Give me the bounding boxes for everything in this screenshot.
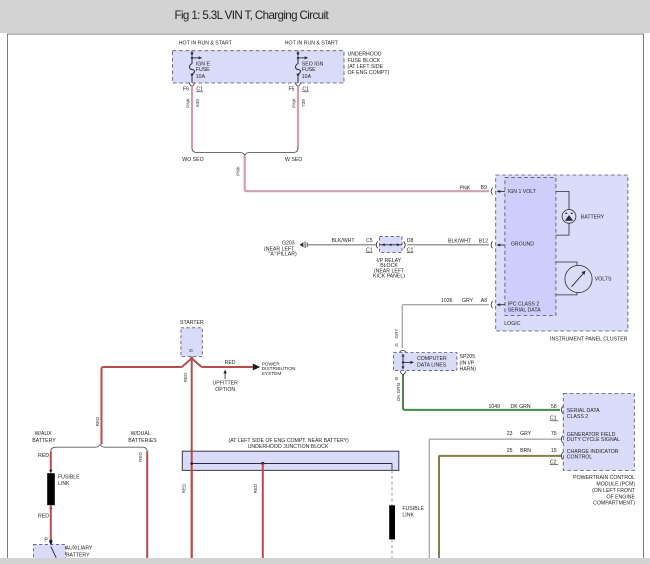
connector pin F6 / C1 — [183, 83, 203, 93]
fuse IGN E FUSE 10A — [190, 51, 211, 83]
starter motor B terminal — [180, 320, 204, 356]
svg-text:RED: RED — [38, 514, 49, 520]
ground G203 — [264, 240, 307, 257]
svg-text:COMPUTER: COMPUTER — [417, 356, 447, 362]
svg-text:58: 58 — [551, 404, 557, 410]
svg-text:739: 739 — [301, 99, 306, 107]
gauge VOLTS — [556, 262, 612, 295]
svg-text:639: 639 — [195, 99, 200, 107]
svg-text:BRN: BRN — [520, 448, 531, 454]
splice SP205 computer data lines — [394, 353, 477, 373]
svg-text:23: 23 — [507, 431, 513, 437]
svg-text:FUSIBLE: FUSIBLE — [58, 475, 80, 481]
svg-text:W/AUX: W/AUX — [35, 431, 53, 437]
junction at starter B — [190, 357, 193, 360]
wire (dashed, below fusible link 2) — [391, 539, 393, 558]
connector at PCM pin 75 — [561, 436, 563, 443]
svg-text:C5: C5 — [366, 238, 373, 244]
svg-text:PNK: PNK — [291, 97, 296, 107]
wire RED (starter wire through junction block) — [191, 451, 193, 558]
svg-text:OF ENG COMPT): OF ENG COMPT) — [348, 70, 390, 76]
wire GRY 23 (PCM 75 down) — [429, 439, 561, 558]
svg-text:LINK: LINK — [58, 481, 70, 487]
wire PNK 739 (fuse F5 down) — [297, 86, 299, 148]
svg-text:UNDERHOOD: UNDERHOOD — [348, 52, 382, 58]
module PCM powertrain control module — [563, 394, 636, 507]
svg-text:AUXILIARY: AUXILIARY — [66, 545, 94, 551]
wire BLK/WHT (relay block to IPC B12) — [408, 244, 490, 246]
svg-text:VOLTS: VOLTS — [595, 276, 612, 282]
svg-text:F5: F5 — [289, 87, 295, 93]
svg-text:1036: 1036 — [441, 298, 453, 304]
connector at A8 — [491, 301, 493, 308]
wire (dashed, junction block to fusible link 2) — [391, 470, 393, 505]
wire BLK/WHT (G203 to I/P relay block) — [308, 244, 376, 246]
svg-text:HOT IN RUN & START: HOT IN RUN & START — [179, 41, 233, 47]
svg-text:BLK/WHT: BLK/WHT — [448, 238, 472, 244]
fusible link 2 — [389, 505, 424, 539]
svg-text:"A" PILLAR): "A" PILLAR) — [269, 252, 297, 258]
svg-text:FUSE BLOCK: FUSE BLOCK — [348, 58, 381, 64]
wire RED (starter splice left diagonal) — [182, 358, 192, 367]
svg-text:RED: RED — [38, 453, 49, 459]
svg-text:GRY: GRY — [462, 298, 474, 304]
svg-text:INSTRUMENT PANEL CLUSTER: INSTRUMENT PANEL CLUSTER — [550, 336, 628, 342]
connector D8 — [404, 241, 406, 248]
svg-text:1049: 1049 — [489, 404, 501, 410]
svg-text:10A: 10A — [196, 74, 206, 80]
svg-text:B9: B9 — [481, 185, 487, 191]
connector C5 — [376, 241, 378, 248]
bottom bar — [0, 558, 650, 564]
underhood fuse block — [173, 51, 390, 83]
wire RED (junction block tap down) — [262, 464, 264, 559]
svg-text:UPFITTER: UPFITTER — [213, 381, 239, 387]
splice brace W/AUX / W/DUAL batteries — [32, 431, 157, 452]
title bar — [0, 0, 650, 33]
wire RED (left branch to battery brace) — [102, 367, 182, 444]
junction at relay pin P — [49, 540, 52, 543]
svg-text:F6: F6 — [183, 87, 189, 93]
svg-text:OF ENGINE: OF ENGINE — [606, 494, 635, 500]
svg-text:LINK: LINK — [402, 512, 414, 518]
svg-text:STARTER: STARTER — [180, 320, 204, 326]
svg-text:BATTERY: BATTERY — [32, 438, 56, 444]
svg-text:BATTERIES: BATTERIES — [128, 438, 157, 444]
wire RED (starter splice right diagonal) — [192, 358, 202, 367]
svg-text:RED: RED — [138, 451, 143, 461]
svg-text:UNDERHOOD JUNCTION BLOCK: UNDERHOOD JUNCTION BLOCK — [248, 444, 329, 450]
svg-text:SERIAL DATA: SERIAL DATA — [567, 408, 600, 414]
svg-text:RED: RED — [182, 483, 187, 493]
svg-text:25: 25 — [507, 448, 513, 454]
wire RED (starter down to junction block) — [191, 357, 193, 559]
svg-text:GRY: GRY — [394, 329, 399, 339]
node UPFITTER OPTION — [213, 370, 239, 393]
wire RED (W/DUAL batteries branch) — [146, 451, 148, 558]
svg-text:FUSE: FUSE — [302, 67, 316, 73]
wire PNK (splice to IPC B9) — [236, 156, 489, 192]
svg-text:D8: D8 — [407, 238, 414, 244]
svg-text:15: 15 — [551, 448, 557, 454]
svg-text:BATTERY: BATTERY — [66, 553, 90, 559]
junction on bus bar — [261, 462, 264, 465]
svg-text:HARN): HARN) — [460, 367, 477, 373]
svg-text:SYSTEM: SYSTEM — [262, 371, 282, 377]
svg-text:W SEO: W SEO — [285, 157, 302, 163]
svg-text:POWERTRAIN CONTROL: POWERTRAIN CONTROL — [573, 475, 635, 481]
wire RED (fusible link to relay) — [50, 505, 52, 544]
svg-text:A8: A8 — [481, 298, 487, 304]
connector at B12 — [491, 241, 493, 248]
svg-text:DK GRN: DK GRN — [511, 404, 531, 410]
svg-text:IGN 1 VOLT: IGN 1 VOLT — [508, 189, 537, 195]
svg-text:B: B — [394, 377, 399, 380]
wire DK GRN 1049 (SP205 to PCM 58) — [403, 375, 560, 410]
junction block I/P relay block — [373, 237, 405, 280]
svg-text:GRY: GRY — [520, 431, 532, 437]
svg-text:CLASS 2: CLASS 2 — [567, 414, 588, 420]
svg-text:FUSE: FUSE — [196, 67, 210, 73]
svg-text:RED: RED — [95, 416, 100, 426]
connector at PCM pin 58 — [561, 406, 563, 413]
svg-text:RED: RED — [183, 372, 188, 382]
svg-text:GROUND: GROUND — [511, 241, 534, 247]
svg-text:10A: 10A — [302, 74, 312, 80]
svg-text:SERIAL DATA: SERIAL DATA — [508, 308, 541, 314]
wire BRN 25 (PCM 15 down) — [439, 456, 561, 558]
svg-text:PNK: PNK — [185, 97, 190, 107]
svg-text:Fig 1: 5.3L VIN T, Charging Ci: Fig 1: 5.3L VIN T, Charging Circuit — [175, 9, 330, 22]
svg-text:DK GRN: DK GRN — [396, 383, 401, 401]
wire GRY 1036 (IPC A8 to SP205) — [402, 305, 489, 349]
svg-text:DUTY CYCLE SIGNAL: DUTY CYCLE SIGNAL — [567, 437, 620, 443]
svg-text:OPTION: OPTION — [215, 387, 235, 393]
svg-text:(ON LEFT FRONT: (ON LEFT FRONT — [592, 488, 636, 494]
svg-text:BATTERY: BATTERY — [581, 214, 605, 220]
module IPC logic box (inner) — [504, 178, 556, 327]
svg-text:BLK/WHT: BLK/WHT — [332, 238, 356, 244]
junction block underhood junction block — [182, 438, 398, 470]
relay auxiliary battery relay — [34, 541, 94, 563]
svg-text:W/DUAL: W/DUAL — [131, 431, 151, 437]
fusible link 1 — [47, 470, 80, 509]
svg-text:RED: RED — [253, 483, 258, 493]
connector at B9 — [491, 188, 493, 195]
wire PNK 639 (fuse F6 down) — [191, 86, 193, 148]
indicator lamp BATTERY — [556, 191, 605, 235]
wire RED (right branch to power distribution) — [202, 366, 253, 368]
svg-text:RED: RED — [225, 360, 236, 366]
svg-text:PNK: PNK — [236, 165, 241, 175]
svg-text:(IN I/P: (IN I/P — [460, 360, 475, 366]
junction at bus left end — [190, 462, 193, 465]
connector pin F5 / C1 — [289, 83, 310, 93]
connector G (above splice box) — [400, 350, 406, 352]
svg-text:CONTROL: CONTROL — [567, 455, 592, 461]
svg-text:75: 75 — [551, 431, 557, 437]
svg-text:WO SEO: WO SEO — [182, 157, 203, 163]
svg-text:B: B — [188, 349, 193, 352]
svg-text:IPC CLASS 2: IPC CLASS 2 — [508, 301, 540, 307]
svg-text:LOGIC: LOGIC — [504, 321, 520, 327]
splice brace WO SEO / W SEO — [182, 148, 302, 163]
wire RED (W/AUX battery branch) — [50, 451, 52, 471]
svg-text:P: P — [44, 537, 48, 543]
svg-text:G: G — [394, 343, 399, 347]
svg-text:MODULE (PCM): MODULE (PCM) — [596, 481, 635, 487]
node POWER DISTRIBUTION SYSTEM — [253, 361, 296, 377]
svg-text:HOT IN RUN & START: HOT IN RUN & START — [285, 41, 339, 47]
svg-text:PNK: PNK — [460, 185, 471, 191]
svg-text:SP205: SP205 — [460, 354, 476, 360]
module U-IPC instrument panel cluster (outer) — [496, 175, 628, 342]
svg-text:B12: B12 — [479, 238, 488, 244]
connector at PCM pin 15 — [561, 452, 563, 459]
connector B (below splice box) — [400, 371, 406, 375]
svg-text:DATA LINES: DATA LINES — [417, 362, 447, 368]
fuse SEO IGN FUSE 10A — [296, 51, 324, 83]
svg-text:FUSIBLE: FUSIBLE — [402, 506, 424, 512]
svg-text:KICK PANEL): KICK PANEL) — [373, 274, 405, 280]
svg-text:(AT LEFT SIDE: (AT LEFT SIDE — [348, 64, 384, 70]
svg-text:COMPARTMENT): COMPARTMENT) — [593, 501, 635, 507]
